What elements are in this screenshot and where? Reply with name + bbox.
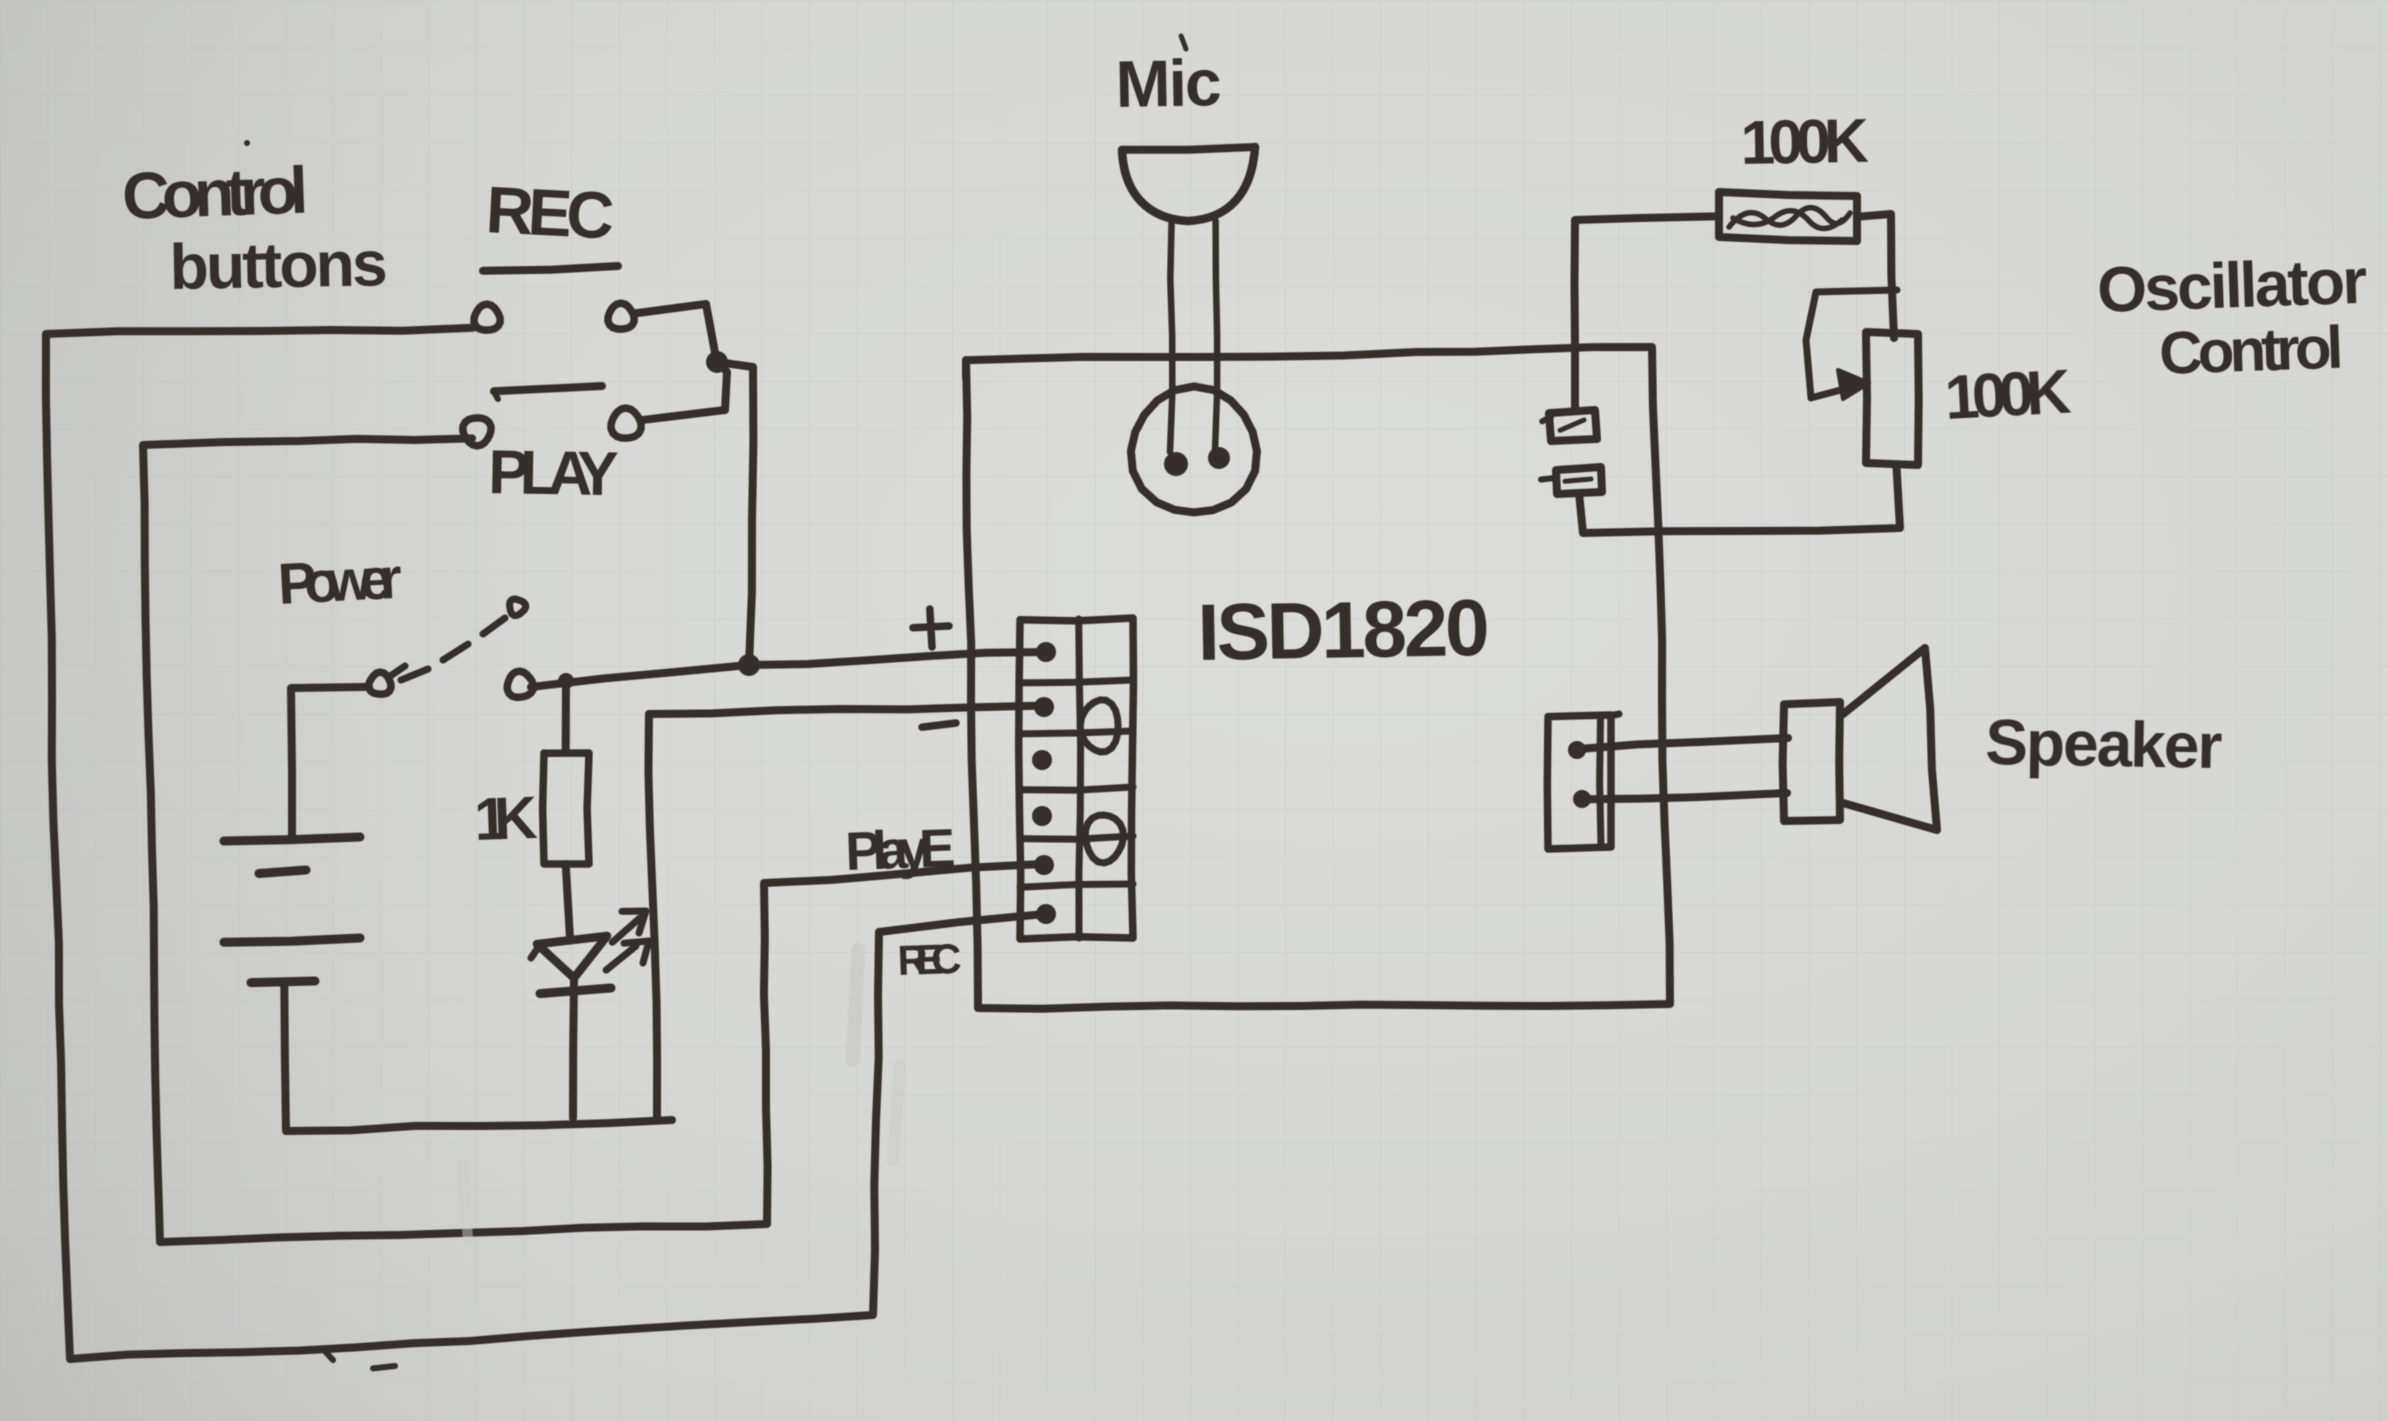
svg-text:Control: Control xyxy=(2158,314,2344,387)
svg-text:Mic: Mic xyxy=(1115,45,1222,121)
svg-text:PLAY: PLAY xyxy=(488,438,619,509)
svg-text:ISD1820: ISD1820 xyxy=(1197,583,1491,677)
svg-text:100K: 100K xyxy=(1740,107,1869,178)
svg-text:100K: 100K xyxy=(1943,357,2073,433)
svg-text:PlayE: PlayE xyxy=(844,818,956,882)
svg-text:1K: 1K xyxy=(473,784,538,853)
svg-text:Control: Control xyxy=(121,153,309,233)
svg-text:REC: REC xyxy=(484,172,616,253)
svg-text:Speaker: Speaker xyxy=(1985,706,2223,782)
svg-text:REC: REC xyxy=(897,935,963,984)
svg-text:buttons: buttons xyxy=(169,227,388,303)
svg-text:Power: Power xyxy=(276,546,403,617)
